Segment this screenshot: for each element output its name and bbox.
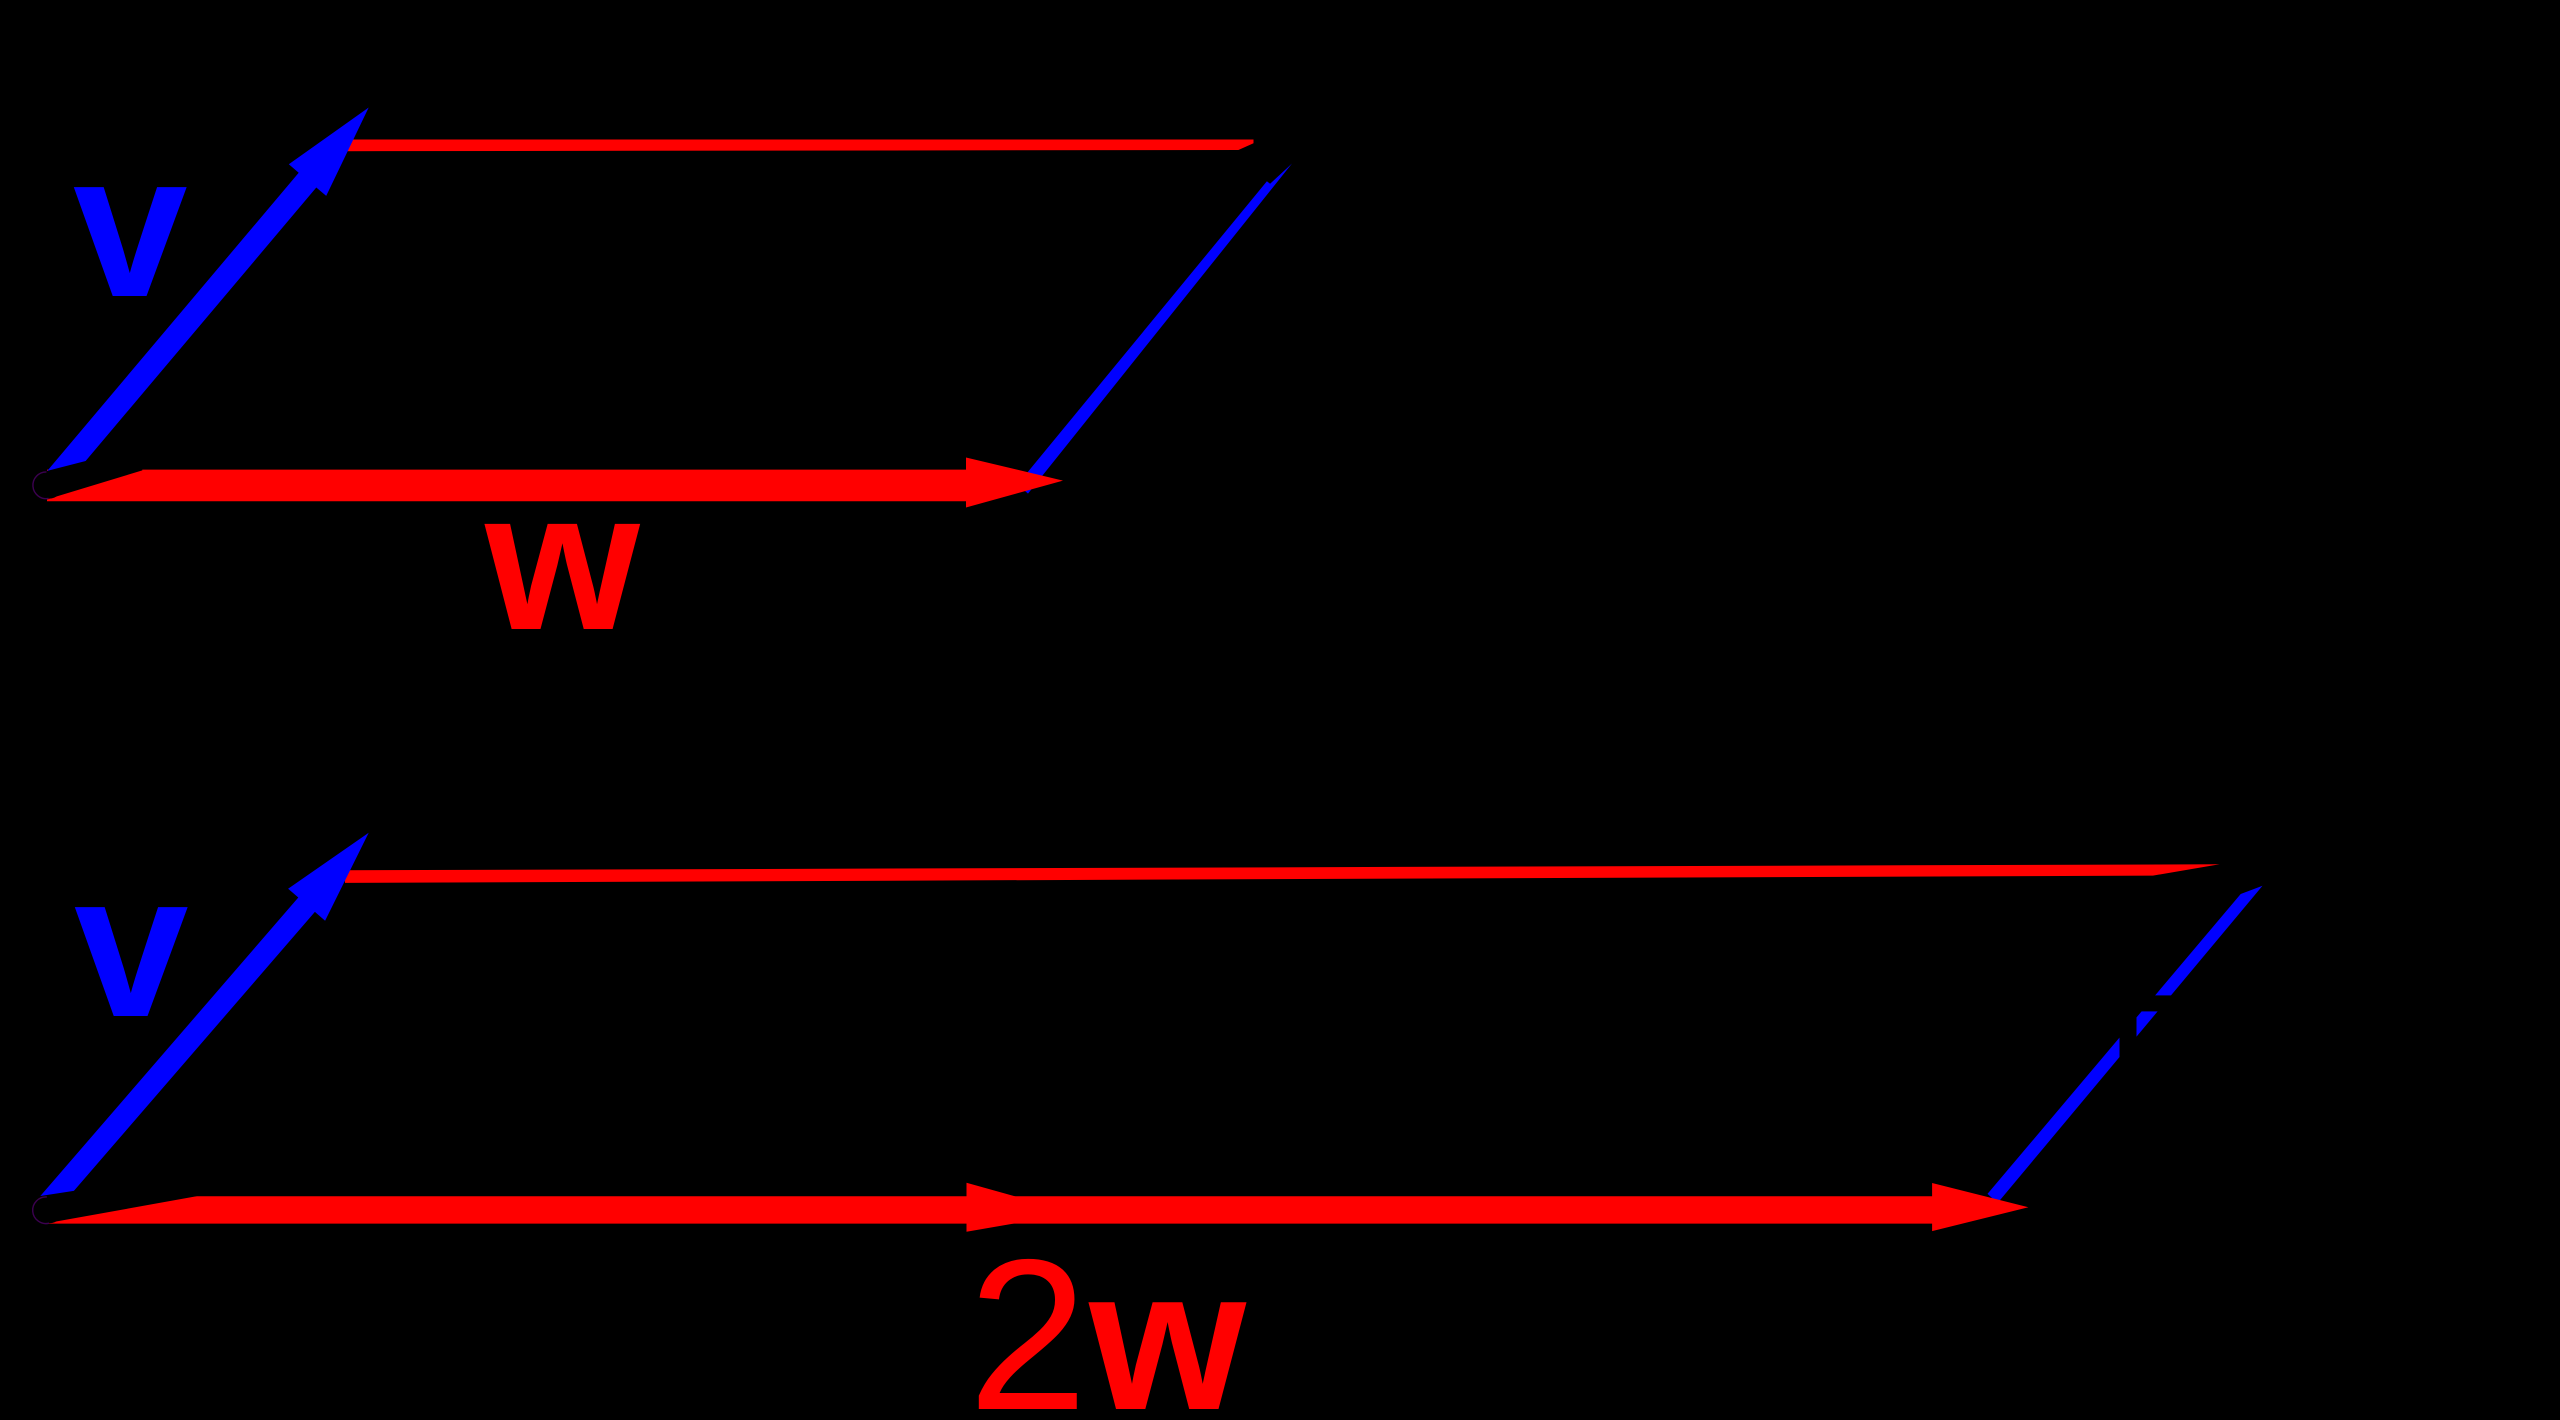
vector v (thick blue arrow, lower) [40,833,369,1211]
svg-text:v: v [73,110,188,340]
svg-text:w: w [484,450,641,672]
black origin cap (upper) [36,472,63,499]
svg-text:w: w [1088,1226,1247,1420]
black occluder wedge over w tail (hidden v+w arrow, upper) [38,455,142,503]
vector 2w (thick red arrow with end head, lower) [47,1183,2028,1231]
black occluder bar (vertical) cutting thin blue line [2120,940,2137,1065]
black origin cap (lower) [36,1197,63,1224]
black occluder bar (horizontal) cutting thin blue line [2065,995,2190,1011]
vector v (thick blue arrow, upper) [38,108,369,497]
wire: thin blue right side of lower parallelogram (v translated by 2w) [1988,886,2263,1203]
wire: thin red top side of lower parallelogram (2w translated by v) [345,864,2220,883]
wire: thin red top side of upper parallelogram (w translated by v) [340,140,1254,152]
svg-text:v: v [74,830,189,1060]
black occluder wedge over 2w tail (hidden v+2w arrow, lower) [38,1184,197,1226]
wire: thin blue right side of upper parallelogram (v translated by w) [1018,164,1293,494]
mid arrowhead of 2w at w position (lower) [967,1183,1076,1232]
vector w (thick red arrow, upper) [47,458,1063,508]
svg-text:2: 2 [968,1214,1088,1420]
